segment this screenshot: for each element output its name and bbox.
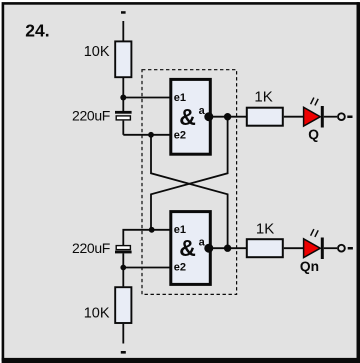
- svg-text:e2: e2: [174, 130, 186, 142]
- svg-text:&: &: [179, 104, 196, 130]
- svg-text:Qn: Qn: [300, 259, 319, 274]
- svg-text:1K: 1K: [254, 88, 272, 105]
- svg-text:10K: 10K: [84, 305, 110, 321]
- svg-text:e2: e2: [174, 262, 186, 274]
- svg-text:&: &: [179, 235, 196, 261]
- svg-text:a: a: [199, 236, 206, 248]
- svg-text:10K: 10K: [84, 44, 110, 60]
- svg-text:220uF: 220uF: [72, 107, 110, 123]
- svg-text:e1: e1: [174, 92, 186, 104]
- svg-text:Q: Q: [308, 127, 319, 142]
- svg-text:1K: 1K: [256, 221, 274, 238]
- svg-text:24.: 24.: [25, 21, 49, 41]
- svg-text:220uF: 220uF: [72, 240, 110, 256]
- svg-text:a: a: [199, 105, 206, 117]
